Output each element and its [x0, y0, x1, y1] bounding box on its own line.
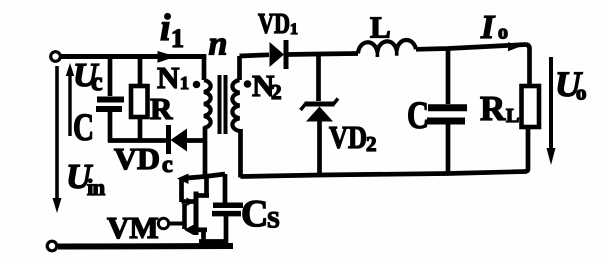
- transformer primary bottom lead: [203, 127, 208, 178]
- svg-text:C: C: [407, 94, 429, 137]
- svg-text:R: R: [480, 89, 506, 128]
- svg-text:o: o: [576, 81, 587, 105]
- resistor R: [131, 86, 148, 117]
- diode VD2 (freewheel): [316, 54, 321, 101]
- svg-text:i: i: [160, 7, 171, 49]
- output capacitor C lead top: [446, 49, 451, 105]
- svg-text:n: n: [209, 26, 228, 63]
- transformer secondary winding N2: [237, 56, 242, 80]
- snubber capacitor Cs top lead: [223, 174, 228, 203]
- MOSFET gate bar: [182, 204, 187, 229]
- svg-text:1: 1: [290, 21, 298, 38]
- svg-text:I: I: [480, 9, 496, 46]
- wire: output bottom rail: [241, 172, 527, 177]
- transformer core: [218, 75, 222, 134]
- MOSFET channel bar: [194, 192, 199, 236]
- svg-text:S: S: [267, 208, 280, 233]
- wire: inductor to RL corner with C tee: [416, 45, 526, 50]
- wire: clamp capacitor branch bottom: [108, 112, 113, 142]
- wire: clamp bottom rail: [108, 138, 167, 143]
- MOSFET gate lead: [169, 222, 184, 226]
- svg-text:1: 1: [180, 73, 189, 93]
- svg-text:c: c: [91, 67, 103, 96]
- voltage arrow Uo: [549, 57, 553, 152]
- svg-text:VD: VD: [329, 119, 367, 155]
- svg-text:1: 1: [171, 24, 184, 53]
- wire: bottom rail: [58, 243, 233, 250]
- N2 polarity dot: [244, 80, 252, 88]
- capacitor C (clamp): [97, 97, 124, 103]
- load resistor RL bottom lead: [525, 127, 528, 172]
- svg-text:L: L: [506, 105, 519, 127]
- diode VDc: [166, 125, 171, 154]
- inductor L: [358, 40, 416, 54]
- load resistor RL leads: [526, 45, 530, 87]
- wire: clamp capacitor branch top: [108, 57, 113, 97]
- arrow into MOSFET drain: [177, 174, 189, 185]
- wire: clamp resistor branch top: [138, 57, 143, 87]
- wire: top rail from terminal to primary: [61, 54, 204, 59]
- wire: secondary top to VD1: [240, 55, 270, 56]
- input terminal top-left: [51, 52, 61, 62]
- svg-text:2: 2: [366, 132, 377, 156]
- MOSFET source stub with arrow: [192, 227, 207, 232]
- MOSFET VM drain bend: [179, 179, 184, 202]
- svg-text:in: in: [87, 175, 105, 200]
- svg-text:VD: VD: [114, 141, 160, 176]
- svg-text:R: R: [150, 91, 173, 126]
- current arrow Io: [508, 42, 520, 51]
- wire: drain node horizontal: [187, 174, 225, 178]
- transformer primary top lead: [202, 54, 207, 80]
- svg-text:VM: VM: [107, 210, 159, 245]
- wire: VD1 to inductor with VD2 tee: [288, 54, 358, 55]
- svg-text:L: L: [370, 10, 391, 45]
- diode VD1: [270, 42, 285, 67]
- load resistor RL: [522, 86, 540, 127]
- svg-text:2: 2: [271, 80, 282, 104]
- output capacitor C lead bottom: [446, 125, 451, 175]
- svg-text:C: C: [241, 193, 268, 235]
- voltage arrow Uc: [68, 72, 71, 136]
- output capacitor C: [428, 104, 467, 111]
- wire: clamp resistor branch bottom: [138, 117, 143, 142]
- N1 polarity dot: [193, 81, 201, 89]
- MOSFET gate terminal circle: [158, 218, 168, 228]
- snubber capacitor Cs: [213, 203, 243, 209]
- current arrow i1: [158, 51, 177, 63]
- input terminal bottom-left: [47, 241, 57, 251]
- svg-text:o: o: [498, 22, 508, 44]
- svg-text:VD: VD: [258, 9, 290, 40]
- MOSFET drain stub: [198, 193, 209, 198]
- svg-text:N: N: [157, 60, 179, 95]
- snubber capacitor Cs bottom lead: [224, 216, 229, 245]
- svg-text:c: c: [162, 152, 173, 178]
- transformer primary winding N1: [204, 80, 211, 128]
- transformer secondary bottom lead: [238, 129, 243, 178]
- svg-text:C: C: [73, 106, 94, 149]
- MOSFET source lead: [201, 230, 206, 245]
- voltage arrow Uin: [55, 66, 59, 203]
